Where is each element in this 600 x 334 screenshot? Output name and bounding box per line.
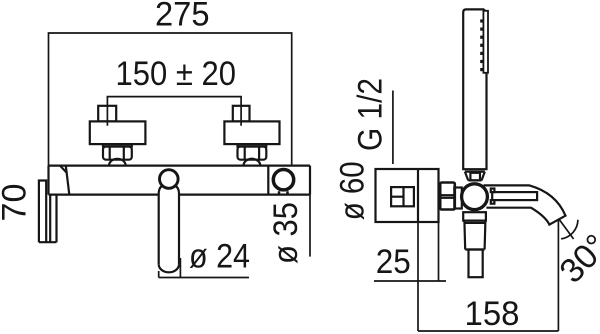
svg-text:275: 275 bbox=[155, 0, 210, 33]
svg-text:G 1/2: G 1/2 bbox=[352, 78, 390, 151]
svg-text:150 ± 20: 150 ± 20 bbox=[116, 55, 237, 93]
svg-text:30°: 30° bbox=[552, 227, 600, 290]
svg-text:25: 25 bbox=[376, 243, 411, 281]
svg-text:ø 60: ø 60 bbox=[334, 161, 372, 220]
svg-text:ø 35: ø 35 bbox=[267, 202, 305, 264]
svg-text:70: 70 bbox=[0, 184, 34, 222]
svg-text:158: 158 bbox=[465, 295, 520, 333]
svg-text:ø 24: ø 24 bbox=[189, 237, 250, 275]
